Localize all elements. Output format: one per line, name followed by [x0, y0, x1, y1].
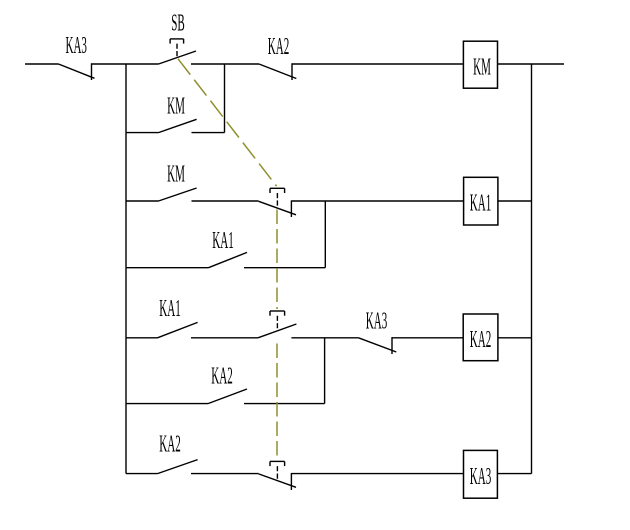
wire: top rung from KA2 contact to KM coil: [292, 63, 463, 65]
svg-text:KA3: KA3: [65, 33, 86, 60]
svg-text:KM: KM: [167, 93, 185, 120]
coil KA2 (box): [463, 314, 498, 361]
contact KM normally-open (KA1 rung): [159, 188, 197, 201]
coil KA3 (box): [464, 450, 498, 498]
wire: KM self-hold branch from left rail: [126, 132, 159, 134]
mechanical linkage dashed line (diagonal from SB): [178, 59, 277, 186]
svg-text:KA2: KA2: [470, 326, 491, 353]
contact KA3 normally-closed (KA2 rung): [359, 337, 397, 354]
svg-text:KA1: KA1: [212, 227, 233, 254]
svg-text:KA1: KA1: [159, 295, 180, 322]
wire: top rung from KM coil to right end: [498, 63, 565, 65]
svg-text:KA2: KA2: [159, 431, 180, 458]
coil KA1 (box): [464, 177, 498, 225]
svg-text:SB: SB: [171, 10, 184, 37]
wire: KA2 rung from coil to right rail: [498, 337, 532, 339]
svg-text:KA2: KA2: [268, 33, 289, 60]
wire: KA1 self-hold branch to riser: [244, 267, 325, 269]
svg-text:KA1: KA1: [470, 190, 491, 217]
contact KA3 normally-closed (top rung): [59, 63, 95, 80]
wire: right vertical rail: [531, 64, 533, 474]
contact KA1 normally-open (KA2 rung): [158, 322, 198, 337]
pushbutton section SB normally-closed (KA1 rung): [259, 188, 296, 217]
wire: KM self-hold riser up to top rung: [224, 64, 226, 133]
wire: top rung from SB to KA2 contact: [191, 63, 259, 65]
wire: KA2 rung from SB section to KA3 contact: [291, 337, 358, 339]
wire: KA3 rung from coil to right rail: [497, 473, 531, 475]
svg-text:KM: KM: [473, 54, 491, 81]
svg-text:KM: KM: [167, 161, 185, 188]
contact KA1 normally-open (self-hold branch): [209, 252, 248, 267]
mechanical linkage dashed line (vertical, lower part): [276, 344, 278, 460]
wire: KA2 rung from left rail: [126, 337, 158, 339]
wire: KA1 self-hold branch from left rail: [126, 267, 209, 269]
wire: KA3 rung from KA2 contact to SB section: [191, 473, 259, 475]
wire: top rung from KA3 contact to SB: [92, 63, 159, 65]
wire: KA3 rung from SB section to KA3 coil: [291, 473, 463, 475]
wire: KA1 rung from coil to right rail: [498, 200, 532, 202]
wire: KA2 self-hold riser up to KA2 rung: [324, 338, 326, 404]
contact KA2 normally-open (self-hold branch): [208, 389, 247, 404]
svg-text:KA2: KA2: [211, 363, 232, 390]
wire: KA1 rung from SB section to KA1 coil: [291, 200, 463, 202]
pushbutton section SB normally-open (KA2 rung): [258, 311, 296, 338]
svg-text:KA3: KA3: [470, 463, 491, 490]
pushbutton section SB normally-closed (KA3 rung): [259, 461, 296, 490]
wire: KA2 rung from KA1 contact to SB section: [191, 337, 258, 339]
mechanical linkage dashed line (vertical, upper part): [276, 210, 278, 310]
wire: left vertical rail: [125, 64, 127, 474]
pushbutton SB normally-open contact (top rung): [159, 39, 196, 64]
wire: KA3 rung from left rail: [126, 473, 158, 475]
contact KA2 normally-open (KA3 rung): [158, 460, 198, 474]
wire: KA2 self-hold branch to riser: [244, 403, 325, 405]
wire: KA2 rung from KA3 contact to KA2 coil: [392, 337, 463, 339]
coil KM (box): [463, 41, 497, 88]
wire: KM self-hold branch to riser: [192, 132, 225, 134]
svg-text:KA3: KA3: [366, 308, 387, 335]
wire: top rung incoming segment: [25, 63, 59, 65]
wire: KA1 self-hold riser up to KA1 rung: [324, 201, 326, 268]
wire: KA2 self-hold branch from left rail: [126, 403, 208, 405]
wire: KA1 rung from left rail: [126, 200, 159, 202]
contact KM normally-open (self-hold branch): [159, 119, 197, 132]
contact KA2 normally-closed (top rung): [259, 63, 296, 80]
wire: KA1 rung from KM contact to SB section: [192, 200, 259, 202]
